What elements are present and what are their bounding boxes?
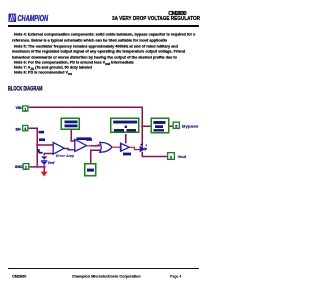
- thermal shutdown block: [85, 164, 96, 176]
- svg-text:1: 1: [24, 107, 26, 111]
- red wire gate output to buffer: [112, 146, 121, 148]
- footer rule: [8, 268, 199, 269]
- block diagram schematic: [0, 0, 207, 292]
- wire VEN to left rail down to ground node: [29, 128, 38, 167]
- net label dash on EN rail: [39, 131, 45, 134]
- svg-text:EN: EN: [16, 128, 21, 132]
- pin VOUT terminal box, pin 3: [168, 153, 175, 160]
- footer company: [72, 274, 141, 279]
- buffer amp U4: [121, 143, 130, 151]
- red input stubs of driver comparator: [72, 141, 75, 150]
- svg-text:2: 2: [25, 165, 27, 169]
- OR gate U3: [100, 142, 112, 152]
- wire VIN top rail to pass transistor: [29, 107, 143, 146]
- red input stubs of error amp: [50, 145, 53, 154]
- pin VIN terminal box, pin 1: [23, 106, 28, 111]
- svg-text:VIN: VIN: [16, 106, 22, 110]
- wire thermal shutdown to gate lower input: [91, 150, 100, 163]
- svg-text:Bypass: Bypass: [182, 123, 199, 128]
- wire reference box to driver comparator input: [71, 130, 75, 141]
- plus label tick on left rail: [37, 149, 40, 152]
- red drain stub at pass transistor: [141, 146, 143, 149]
- net label dash above gate input: [86, 138, 92, 141]
- BLOCK DIAGRAM heading: [0, 0, 207, 100]
- header rule: [8, 25, 199, 27]
- svg-text:3: 3: [170, 156, 172, 160]
- header part number and subtitle: [0, 0, 207, 30]
- footer page number: [170, 274, 181, 279]
- thermal sense block: [151, 118, 169, 133]
- header logo CHAMPION: [8, 13, 128, 25]
- wire left rail to error amp inverting input: [37, 144, 53, 146]
- notes block: [14, 32, 195, 37]
- pin VEN terminal box, pin 4: [23, 125, 28, 131]
- voltage reference box VREF: [61, 118, 79, 129]
- wire error amp non-inverting input from reference: [44, 153, 53, 155]
- svg-text:GND: GND: [15, 165, 23, 169]
- ground arrow head: [41, 172, 48, 177]
- label bar under buffer: [123, 153, 131, 156]
- junction node GND wire with left rail: [36, 166, 39, 169]
- pin GND terminal box, pin 2: [23, 164, 29, 170]
- net label dash at reference node: [39, 152, 43, 154]
- pass transistor Q1: [140, 144, 147, 153]
- junction node on left rail at error amp input: [36, 144, 39, 147]
- svg-text:Vref: Vref: [48, 161, 55, 165]
- wire thermal sense block to flag pin: [170, 125, 173, 127]
- svg-text:Vout: Vout: [178, 155, 187, 159]
- wire error amp output to driver comparator: [64, 148, 75, 149]
- junction node GND wire with reference stack: [43, 165, 46, 168]
- ground arrow stem: [43, 167, 45, 172]
- thick input edge of buffer: [120, 143, 122, 151]
- current limit block: [111, 118, 139, 132]
- label bar above driver comparator: [77, 137, 92, 140]
- net label dash above inverting input: [39, 138, 45, 141]
- op-amp U2 driver comparator: [75, 139, 87, 151]
- wire current limit block to buffer top: [125, 134, 127, 143]
- red wire buffer to pass transistor gate: [129, 147, 139, 149]
- wire rail junction to thermal sense block: [142, 125, 150, 127]
- pin FLAG terminal box, pin 5: [173, 122, 179, 128]
- wire GND to reference stack node: [30, 166, 45, 168]
- reference diode stack D1: [41, 156, 47, 166]
- svg-text:5: 5: [175, 124, 177, 128]
- junction node on VIN rail at current limit tap: [141, 125, 144, 128]
- footer doc number: [12, 274, 26, 279]
- wire driver output to gate U3: [90, 145, 99, 147]
- red output stub of driver comparator: [87, 145, 91, 147]
- op-amp U1 error amplifier: [53, 142, 64, 154]
- wire pass transistor to output pin: [142, 152, 167, 157]
- svg-text:Error Amp: Error Amp: [56, 154, 74, 158]
- red input stubs of OR gate: [97, 145, 100, 150]
